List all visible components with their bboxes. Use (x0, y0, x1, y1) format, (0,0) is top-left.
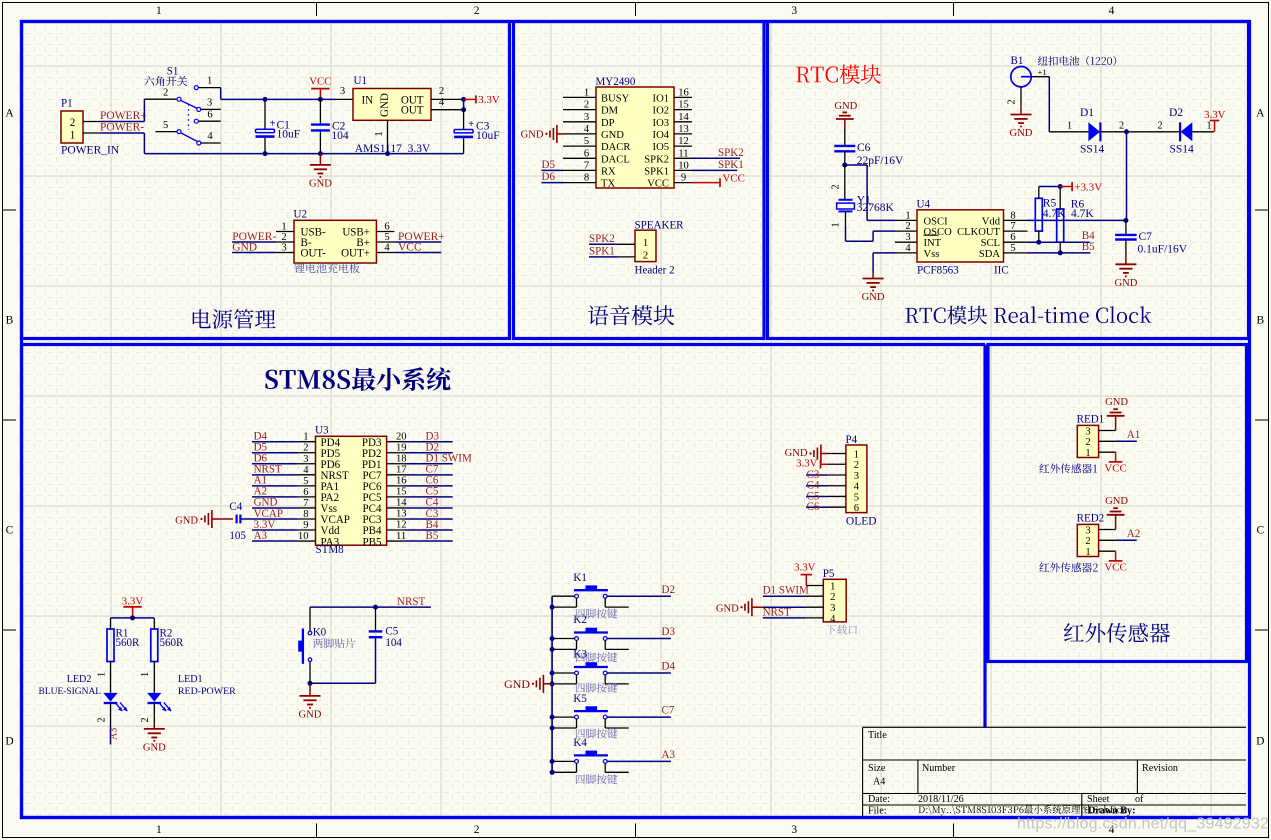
svg-text:2: 2 (474, 824, 480, 836)
svg-text:GND: GND (232, 241, 257, 253)
svg-text:Title: Title (868, 730, 887, 741)
svg-text:D6: D6 (542, 171, 556, 183)
svg-text:TX: TX (601, 179, 615, 190)
svg-text:15: 15 (396, 487, 407, 498)
svg-text:SPK1: SPK1 (718, 159, 744, 171)
svg-text:OUT: OUT (401, 105, 424, 117)
svg-text:DACL: DACL (601, 154, 630, 165)
svg-text:C: C (6, 525, 14, 537)
svg-text:VCC: VCC (1104, 462, 1126, 474)
svg-text:5: 5 (303, 476, 308, 487)
svg-text:SS14: SS14 (1170, 143, 1195, 155)
svg-text:1: 1 (1085, 448, 1090, 459)
svg-text:4: 4 (207, 131, 213, 142)
svg-text:2: 2 (163, 88, 168, 99)
svg-text:POWER_IN: POWER_IN (61, 145, 120, 157)
svg-text:A: A (5, 108, 14, 120)
svg-text:GND: GND (834, 101, 857, 112)
svg-text:P5: P5 (823, 568, 835, 580)
svg-text:PA3: PA3 (321, 536, 340, 548)
svg-text:OSCI: OSCI (924, 216, 949, 227)
svg-text:MY2490: MY2490 (596, 76, 636, 88)
svg-text:6: 6 (584, 148, 589, 159)
svg-text:GND: GND (1010, 128, 1033, 139)
svg-text:2: 2 (474, 5, 480, 17)
svg-text:12: 12 (396, 520, 407, 531)
svg-text:GND: GND (175, 515, 198, 526)
svg-text:4: 4 (1109, 5, 1115, 17)
svg-text:2: 2 (140, 717, 151, 722)
svg-text:IO4: IO4 (653, 130, 670, 141)
svg-text:VCC: VCC (647, 179, 669, 190)
svg-text:2: 2 (905, 221, 910, 232)
svg-text:104: 104 (385, 637, 402, 649)
svg-text:1: 1 (140, 672, 151, 677)
svg-text:SS14: SS14 (1080, 143, 1105, 155)
svg-text:14: 14 (396, 498, 407, 509)
svg-text:Header 2: Header 2 (635, 265, 675, 277)
svg-text:GND: GND (309, 179, 332, 190)
svg-text:4: 4 (905, 243, 911, 254)
svg-text:RED2: RED2 (1077, 512, 1105, 524)
svg-text:105: 105 (229, 530, 246, 542)
svg-text:6: 6 (207, 109, 212, 120)
svg-text:8: 8 (303, 509, 308, 520)
svg-text:2: 2 (854, 460, 859, 471)
svg-text:3: 3 (303, 454, 308, 465)
svg-text:+1: +1 (1038, 67, 1047, 77)
svg-text:2: 2 (643, 251, 648, 262)
svg-text:D4: D4 (662, 661, 676, 673)
svg-text:A3: A3 (254, 530, 268, 542)
svg-text:3: 3 (1085, 426, 1090, 437)
svg-text:SPK2: SPK2 (644, 154, 669, 165)
svg-text:D2: D2 (662, 584, 675, 596)
svg-text:U2: U2 (294, 209, 307, 221)
svg-text:Sheet: Sheet (1087, 794, 1110, 805)
svg-text:17: 17 (396, 465, 407, 476)
svg-text:U4: U4 (917, 198, 931, 210)
svg-text:4.7K: 4.7K (1043, 208, 1066, 220)
svg-text:15: 15 (678, 100, 689, 111)
svg-text:104: 104 (331, 130, 349, 142)
svg-text:D1: D1 (1080, 107, 1094, 119)
svg-text:6: 6 (384, 222, 389, 233)
svg-text:9: 9 (681, 173, 686, 184)
svg-text:SPK1: SPK1 (589, 246, 615, 258)
svg-text:SDA: SDA (979, 249, 1001, 260)
svg-text:7: 7 (303, 498, 308, 509)
svg-text:VCC: VCC (1104, 561, 1126, 573)
svg-text:5: 5 (384, 232, 389, 243)
svg-text:1: 1 (905, 210, 910, 221)
svg-text:POWER-: POWER- (100, 122, 144, 134)
svg-text:GND: GND (601, 130, 624, 141)
svg-text:File:: File: (868, 805, 887, 816)
svg-text:GND: GND (716, 604, 739, 615)
svg-text:VCC: VCC (723, 172, 745, 184)
svg-text:560R: 560R (116, 637, 141, 649)
svg-text:11: 11 (396, 531, 406, 542)
svg-text:DM: DM (601, 106, 619, 117)
svg-text:5: 5 (584, 136, 589, 147)
svg-text:LED1: LED1 (178, 674, 203, 685)
svg-text:+: + (468, 119, 474, 130)
svg-text:3: 3 (1085, 525, 1090, 536)
svg-text:B5: B5 (426, 530, 439, 542)
svg-text:2: 2 (1085, 437, 1090, 448)
svg-text:1: 1 (830, 582, 835, 593)
svg-text:RED-POWER: RED-POWER (178, 686, 236, 697)
svg-text:3: 3 (207, 98, 212, 109)
svg-text:3: 3 (905, 232, 910, 243)
svg-text:BUSY: BUSY (601, 93, 630, 104)
svg-text:VCC: VCC (398, 241, 422, 253)
svg-text:2: 2 (303, 443, 308, 454)
svg-text:14: 14 (678, 112, 689, 123)
svg-text:4: 4 (830, 614, 836, 625)
svg-text:PB5: PB5 (362, 536, 381, 548)
svg-text:OUT-: OUT- (301, 247, 327, 259)
svg-text:16: 16 (396, 476, 407, 487)
svg-text:1: 1 (1206, 121, 1211, 132)
svg-text:Vdd: Vdd (982, 216, 1001, 227)
svg-text:560R: 560R (160, 637, 185, 649)
svg-text:20: 20 (396, 431, 407, 442)
svg-text:10: 10 (298, 531, 309, 542)
svg-text:2018/11/26: 2018/11/26 (918, 794, 964, 805)
svg-text:+3.3V: +3.3V (1075, 181, 1103, 193)
svg-text:of: of (1135, 794, 1144, 805)
svg-text:A2: A2 (1127, 528, 1140, 540)
svg-text:1: 1 (156, 5, 162, 17)
svg-text:0.1uF/16V: 0.1uF/16V (1138, 243, 1188, 255)
svg-text:B: B (1256, 315, 1264, 327)
svg-text:GND: GND (1114, 278, 1137, 289)
svg-text:GND: GND (521, 130, 544, 141)
svg-text:C6: C6 (857, 142, 871, 154)
svg-text:A3: A3 (662, 749, 676, 761)
svg-text:4: 4 (303, 465, 309, 476)
svg-text:D: D (1256, 736, 1264, 748)
svg-text:3.3V: 3.3V (796, 458, 818, 470)
svg-text:DP: DP (601, 118, 615, 129)
svg-text:Revision: Revision (1142, 763, 1178, 774)
svg-text:1: 1 (96, 672, 107, 677)
svg-text:2: 2 (584, 100, 589, 111)
svg-text:Date:: Date: (868, 794, 890, 805)
svg-text:16: 16 (678, 87, 689, 98)
svg-text:2: 2 (96, 717, 107, 722)
svg-text:2: 2 (1085, 536, 1090, 547)
svg-text:7: 7 (584, 160, 589, 171)
svg-text:2: 2 (831, 184, 842, 189)
svg-text:A: A (1256, 108, 1265, 120)
svg-text:1: 1 (281, 222, 286, 233)
svg-text:1: 1 (156, 824, 162, 836)
svg-text:3.3V: 3.3V (122, 595, 144, 607)
svg-text:1: 1 (303, 432, 308, 443)
svg-text:4.7K: 4.7K (1071, 208, 1094, 220)
svg-text:DACR: DACR (601, 142, 631, 153)
svg-text:1: 1 (1067, 121, 1072, 132)
svg-text:OSCO: OSCO (924, 227, 953, 238)
svg-text:POWER+: POWER+ (100, 110, 147, 122)
svg-text:IO5: IO5 (653, 142, 669, 153)
svg-text:3: 3 (281, 243, 286, 254)
svg-text:1: 1 (1085, 547, 1090, 558)
svg-text:VCC: VCC (309, 76, 331, 88)
svg-text:4: 4 (584, 124, 590, 135)
svg-text:8: 8 (584, 173, 589, 184)
svg-text:D2: D2 (1169, 107, 1183, 119)
svg-text:D5: D5 (542, 159, 556, 171)
svg-text:3.3V: 3.3V (1204, 109, 1226, 121)
svg-text:19: 19 (396, 442, 407, 453)
svg-text:SPK1: SPK1 (644, 166, 669, 177)
svg-text:SCL: SCL (981, 238, 1000, 249)
svg-text:INT: INT (924, 238, 942, 249)
svg-text:D1 SWIM: D1 SWIM (763, 585, 809, 597)
svg-text:NRST: NRST (397, 596, 425, 608)
svg-text:IN: IN (362, 94, 374, 106)
svg-text:GND: GND (379, 93, 391, 117)
svg-text:GND: GND (143, 742, 166, 753)
svg-text:U1: U1 (354, 75, 367, 87)
svg-text:2: 2 (70, 117, 76, 129)
svg-text:CLKOUT: CLKOUT (957, 227, 1000, 238)
svg-text:A3: A3 (109, 728, 120, 740)
svg-text:12: 12 (678, 136, 689, 147)
svg-text:AMS1117_3.3V: AMS1117_3.3V (355, 143, 431, 155)
svg-text:5: 5 (854, 492, 859, 503)
svg-text:SPK2: SPK2 (718, 147, 744, 159)
svg-text:LED2: LED2 (67, 674, 92, 685)
svg-text:Number: Number (922, 763, 956, 774)
svg-text:GND: GND (1105, 496, 1128, 507)
svg-text:P4: P4 (846, 434, 858, 446)
svg-text:K2: K2 (573, 614, 586, 626)
svg-text:2: 2 (1157, 121, 1162, 132)
svg-text:1: 1 (584, 87, 589, 98)
svg-text:1: 1 (831, 222, 842, 227)
svg-text:IO3: IO3 (653, 118, 669, 129)
svg-text:2: 2 (439, 86, 444, 97)
svg-text:K3: K3 (573, 649, 587, 661)
svg-text:2: 2 (1119, 121, 1124, 132)
svg-text:B1: B1 (1011, 55, 1024, 67)
svg-text:D: D (5, 736, 13, 748)
svg-text:IO1: IO1 (653, 93, 669, 104)
svg-text:3: 3 (791, 824, 797, 836)
svg-text:3: 3 (340, 86, 345, 97)
svg-text:C6: C6 (807, 501, 820, 513)
svg-text:SPK2: SPK2 (589, 233, 615, 245)
svg-text:NRST: NRST (763, 607, 791, 619)
svg-text:RX: RX (601, 166, 616, 177)
svg-text:A1: A1 (1127, 429, 1140, 441)
svg-text:3.3V: 3.3V (478, 94, 500, 106)
svg-text:OLED: OLED (846, 515, 877, 527)
svg-text:C: C (1256, 525, 1264, 537)
svg-text:1: 1 (70, 130, 76, 142)
svg-text:10uF: 10uF (277, 128, 301, 140)
svg-text:GND: GND (1105, 397, 1128, 408)
svg-text:K0: K0 (313, 627, 327, 639)
svg-text:BLUE-SIGNAL: BLUE-SIGNAL (39, 687, 102, 697)
svg-text:PCF8563: PCF8563 (917, 265, 959, 277)
svg-text:4: 4 (854, 482, 860, 493)
svg-text:2: 2 (830, 592, 835, 603)
svg-text:13: 13 (678, 124, 689, 135)
svg-text:SPEAKER: SPEAKER (635, 220, 685, 232)
svg-text:9: 9 (303, 520, 308, 531)
svg-text:GND: GND (862, 292, 885, 303)
svg-text:Size: Size (868, 763, 886, 774)
svg-text:P1: P1 (61, 98, 73, 110)
svg-text:K1: K1 (573, 572, 586, 584)
svg-text:IO2: IO2 (653, 106, 669, 117)
svg-text:RED1: RED1 (1077, 413, 1105, 425)
svg-text:D3: D3 (662, 626, 676, 638)
svg-text:4: 4 (384, 243, 390, 254)
svg-text:2: 2 (281, 232, 286, 243)
svg-text:4: 4 (439, 97, 445, 108)
svg-text:18: 18 (396, 453, 407, 464)
svg-text:GND: GND (299, 709, 322, 720)
svg-text:B: B (6, 315, 14, 327)
svg-text:6: 6 (854, 503, 859, 514)
svg-text:3: 3 (584, 112, 589, 123)
svg-text:6: 6 (303, 487, 308, 498)
svg-text:K4: K4 (573, 737, 587, 749)
svg-text:1: 1 (207, 76, 212, 87)
svg-text:1: 1 (854, 449, 859, 460)
svg-text:K5: K5 (573, 693, 587, 705)
svg-text:C7: C7 (662, 705, 675, 717)
svg-text:U3: U3 (315, 425, 329, 437)
svg-text:B5: B5 (1082, 241, 1095, 253)
svg-text:+: + (270, 119, 276, 130)
svg-text:GND: GND (504, 677, 530, 691)
svg-text:OUT+: OUT+ (341, 247, 370, 259)
svg-text:3.3V: 3.3V (794, 562, 816, 574)
svg-text:3: 3 (791, 5, 797, 17)
svg-text:A4: A4 (873, 777, 885, 788)
svg-text:32768K: 32768K (857, 202, 895, 214)
svg-text:2: 2 (1007, 99, 1018, 104)
svg-text:IIC: IIC (994, 265, 1009, 277)
svg-text:10: 10 (678, 160, 689, 171)
svg-text:11: 11 (678, 148, 688, 159)
svg-text:3: 3 (854, 471, 859, 482)
svg-text:C7: C7 (1139, 231, 1153, 243)
svg-text:3: 3 (830, 603, 835, 614)
svg-text:S1: S1 (167, 66, 179, 78)
svg-text:13: 13 (396, 509, 407, 520)
svg-text:1: 1 (643, 238, 648, 249)
svg-text:C4: C4 (229, 501, 242, 513)
svg-text:10uF: 10uF (476, 130, 500, 142)
svg-text:5: 5 (163, 120, 168, 131)
svg-text:Vss: Vss (924, 249, 940, 260)
svg-text:https://blog.csdn.net/qq_39492: https://blog.csdn.net/qq_39492932 (1017, 816, 1269, 833)
svg-text:C5: C5 (385, 626, 398, 638)
svg-text:1: 1 (374, 131, 385, 136)
